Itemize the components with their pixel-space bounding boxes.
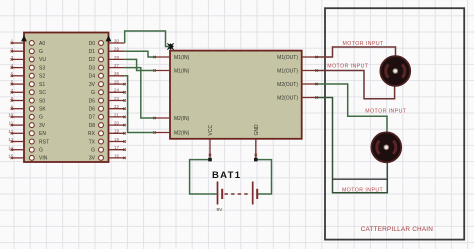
- U1 pin 12 (EN): [8, 129, 46, 137]
- svg-text:MOTOR INPUT: MOTOR INPUT: [365, 109, 407, 115]
- svg-text:26: 26: [114, 71, 119, 76]
- svg-text:22: 22: [114, 104, 119, 109]
- svg-text:VIN: VIN: [39, 156, 48, 162]
- svg-text:12: 12: [8, 129, 13, 134]
- wire M2(OUT) to motor M2 bottom: [318, 98, 388, 193]
- U1 pin 22 (D6): [89, 104, 126, 112]
- U1 pin 15 (VIN): [8, 154, 47, 162]
- U1 pin 25 (3V): [89, 80, 126, 88]
- U2 right pin M1(OUT): [277, 55, 318, 61]
- wire D3 to M2(IN): [125, 68, 155, 118]
- svg-text:MOTOR INPUT: MOTOR INPUT: [342, 187, 384, 193]
- svg-text:M2(IN): M2(IN): [174, 130, 190, 136]
- U1 pin 13 (RST): [8, 137, 49, 145]
- U2 left pin M2(IN): [153, 116, 189, 122]
- svg-text:14: 14: [8, 145, 13, 150]
- svg-text:13: 13: [8, 137, 13, 142]
- svg-text:17: 17: [114, 145, 119, 150]
- U1 pin 19 (RX): [88, 129, 126, 137]
- U2 right pin M2(OUT): [277, 82, 318, 88]
- svg-text:S1: S1: [39, 82, 45, 88]
- wire M1(OUT) to motor M1 bottom: [318, 71, 395, 99]
- svg-text:M1(IN): M1(IN): [174, 68, 190, 74]
- U2 bottom pin GND: [254, 124, 260, 157]
- svg-text:G: G: [39, 115, 43, 121]
- svg-text:30: 30: [114, 38, 119, 43]
- svg-text:S0: S0: [39, 98, 45, 104]
- svg-text:D7: D7: [89, 115, 96, 121]
- U1 pin 17 (G): [91, 145, 126, 153]
- motor driver U2 body: [170, 51, 302, 139]
- U1 pin 7 (SC): [11, 88, 47, 96]
- svg-text:RST: RST: [39, 139, 49, 145]
- junction at GND: [254, 158, 258, 162]
- wire M1(OUT) to motor M1 top: [318, 47, 396, 58]
- caterpillar chain enclosure box: [325, 8, 464, 239]
- svg-text:S3: S3: [39, 65, 45, 71]
- battery BAT1: [218, 182, 258, 205]
- U1 pin 30 (D0): [89, 38, 125, 46]
- wire M2(OUT) to motor M2 top: [318, 84, 388, 134]
- marker top-left of U1: [21, 35, 27, 41]
- svg-text:M1(OUT): M1(OUT): [277, 68, 298, 74]
- junction marker at U2 top-left corner: [167, 43, 174, 50]
- wire D4 to M2(IN): [125, 76, 155, 133]
- svg-text:21: 21: [114, 112, 119, 117]
- svg-text:MOTOR INPUT: MOTOR INPUT: [327, 64, 369, 70]
- wire D1 to M1(IN): [125, 51, 155, 57]
- U1 pin 2 (G): [11, 47, 43, 55]
- svg-text:BAT1: BAT1: [212, 170, 241, 181]
- U1 pin 27 (D3): [89, 63, 125, 71]
- U1 pin 21 (D7): [89, 112, 126, 120]
- U1 pin 3 (VU): [11, 55, 47, 63]
- svg-text:23: 23: [114, 96, 119, 101]
- U1 pin 29 (D1): [89, 47, 125, 55]
- U2 left pin M1(IN): [153, 55, 189, 61]
- U1 pin 11 (3V): [9, 121, 46, 129]
- U2 left pin M1(IN): [153, 68, 189, 74]
- svg-text:VCC: VCC: [208, 125, 214, 136]
- svg-text:TX: TX: [89, 139, 96, 145]
- U2 left pin M2(IN): [153, 130, 189, 136]
- wire GND to battery negative: [256, 157, 272, 194]
- svg-text:28: 28: [114, 55, 119, 60]
- label box MOTOR INPUT 4: [333, 178, 388, 180]
- marker top-right of U1: [106, 35, 112, 41]
- svg-text:D6: D6: [89, 107, 96, 113]
- svg-text:D5: D5: [89, 98, 96, 104]
- svg-text:A0: A0: [39, 41, 45, 47]
- U1 pin 5 (S2): [11, 71, 46, 79]
- svg-text:15: 15: [8, 154, 13, 159]
- svg-text:G: G: [91, 148, 95, 154]
- U1 pin 1 (A0): [11, 39, 46, 47]
- U1 pin 6 (S1): [11, 80, 46, 88]
- svg-text:GND: GND: [254, 124, 260, 136]
- svg-text:D4: D4: [89, 74, 96, 80]
- svg-text:M2(IN): M2(IN): [174, 116, 190, 122]
- U2 bottom pin VCC: [208, 125, 214, 157]
- svg-text:10: 10: [8, 113, 13, 118]
- svg-text:29: 29: [114, 47, 119, 52]
- U1 pin 26 (D4): [89, 71, 125, 79]
- svg-text:16: 16: [114, 153, 119, 158]
- U1 pin 9 (SK): [11, 104, 47, 112]
- svg-text:EN: EN: [39, 131, 46, 137]
- U1 pin 8 (S0): [11, 96, 46, 104]
- svg-text:25: 25: [114, 80, 119, 85]
- svg-text:RX: RX: [88, 131, 96, 137]
- svg-text:M2(OUT): M2(OUT): [277, 82, 298, 88]
- svg-text:24: 24: [114, 88, 119, 93]
- wire VCC to battery positive: [190, 157, 217, 194]
- U1 pin 28 (D2): [89, 55, 125, 63]
- U1 pin 14 (G): [8, 145, 43, 153]
- svg-text:G: G: [39, 49, 43, 55]
- svg-text:D0: D0: [89, 41, 96, 47]
- svg-text:3V: 3V: [89, 82, 96, 88]
- svg-text:D1: D1: [89, 49, 96, 55]
- svg-text:9V: 9V: [217, 207, 224, 213]
- U1 pin 16 (3V): [89, 153, 126, 161]
- svg-text:CATTERPILLAR CHAIN: CATTERPILLAR CHAIN: [361, 226, 434, 233]
- svg-text:3V: 3V: [39, 123, 46, 129]
- motor M1: [380, 56, 410, 86]
- junction at VCC: [208, 158, 212, 162]
- svg-text:VU: VU: [39, 57, 46, 63]
- svg-text:G: G: [39, 148, 43, 154]
- U1 pin 23 (D5): [89, 96, 126, 104]
- svg-text:D2: D2: [89, 57, 96, 63]
- svg-text:M1(IN): M1(IN): [174, 55, 190, 61]
- U1 pin 18 (TX): [89, 137, 126, 145]
- svg-text:18: 18: [114, 137, 119, 142]
- NodeMCU module U1 body: [24, 33, 109, 163]
- svg-text:D8: D8: [89, 123, 96, 129]
- svg-text:20: 20: [114, 121, 119, 126]
- U1 pin 4 (S3): [11, 63, 46, 71]
- svg-text:SK: SK: [39, 107, 46, 113]
- motor M2: [371, 132, 401, 162]
- svg-text:G: G: [91, 90, 95, 96]
- U2 right pin M2(OUT): [277, 95, 318, 101]
- svg-text:19: 19: [114, 129, 119, 134]
- svg-text:11: 11: [9, 121, 14, 126]
- wire D2 to M1(IN): [125, 59, 155, 70]
- U2 right pin M1(OUT): [277, 68, 318, 74]
- svg-text:S2: S2: [39, 74, 45, 80]
- U1 pin 24 (G): [91, 88, 126, 96]
- svg-text:SC: SC: [39, 90, 46, 96]
- svg-text:27: 27: [114, 63, 119, 68]
- U1 pin 20 (D8): [89, 121, 126, 129]
- U1 pin 10 (G): [8, 113, 43, 121]
- svg-text:M2(OUT): M2(OUT): [277, 95, 298, 101]
- svg-text:M1(OUT): M1(OUT): [277, 55, 298, 61]
- wire D0 to U2 corner: [125, 31, 170, 47]
- svg-text:MOTOR INPUT: MOTOR INPUT: [343, 41, 385, 47]
- svg-text:3V: 3V: [89, 156, 96, 162]
- svg-text:D3: D3: [89, 65, 96, 71]
